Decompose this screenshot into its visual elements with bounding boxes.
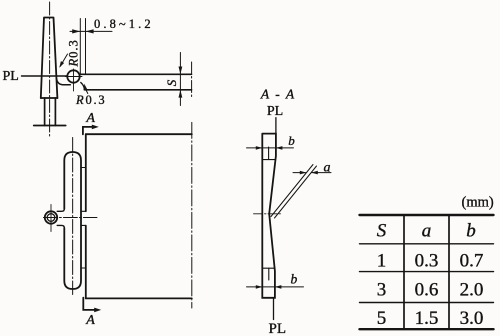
sprue bottom line — [34, 125, 66, 127]
column line 1 — [403, 215, 405, 329]
section line A bottom — [83, 298, 94, 310]
svg-text:a: a — [324, 160, 331, 175]
svg-text:A - A: A - A — [260, 87, 296, 102]
waist centerline — [254, 213, 281, 215]
svg-text:a: a — [422, 221, 432, 242]
svg-text:(mm): (mm) — [462, 194, 494, 210]
svg-text:0.7: 0.7 — [460, 250, 484, 271]
a dimension arrows — [293, 172, 331, 174]
svg-text:PL: PL — [267, 104, 283, 119]
svg-text:5: 5 — [377, 308, 387, 329]
gate tick bottom — [81, 267, 86, 269]
svg-text:b: b — [466, 221, 476, 242]
svg-text:2.0: 2.0 — [460, 280, 484, 301]
cavity rectangle left edge — [85, 134, 87, 298]
plate tick bottom — [262, 267, 275, 269]
sprue crosshair vertical — [50, 205, 52, 232]
sprue circle outer — [45, 211, 57, 223]
section line A top — [83, 127, 92, 134]
sprue crosshair horizontal — [43, 217, 97, 219]
plate tick top — [262, 159, 275, 161]
svg-text:3.0: 3.0 — [460, 308, 484, 329]
svg-text:PL: PL — [269, 321, 287, 336]
PL line — [22, 75, 68, 77]
S dimension line — [179, 53, 181, 106]
runner circle — [67, 70, 79, 82]
svg-text:S: S — [377, 221, 387, 242]
runner connection lines — [57, 209, 64, 228]
svg-text:0.6: 0.6 — [415, 280, 439, 301]
plate bottom line — [84, 89, 191, 91]
row rule 2 — [360, 302, 494, 304]
symmetry centerline — [191, 122, 193, 308]
runner crossing ticks — [81, 211, 86, 225]
extension lines gate width — [80, 19, 85, 74]
table text — [377, 221, 484, 330]
sprue gate curve under circle — [56, 79, 70, 85]
svg-text:b: b — [291, 271, 298, 286]
sprue body (tapered) — [41, 18, 58, 99]
column line 2 — [448, 215, 450, 329]
row rule 1 — [360, 271, 494, 273]
sprue step — [41, 97, 58, 99]
plate top line — [80, 73, 192, 75]
svg-text:R0.3: R0.3 — [67, 39, 81, 67]
svg-text:A: A — [85, 111, 95, 126]
svg-text:0.3: 0.3 — [415, 250, 439, 271]
inner line top — [268, 147, 270, 160]
table bottom rule — [360, 328, 494, 330]
gate lower fillet edge — [81, 83, 85, 90]
leader for lower R0.3 — [85, 88, 88, 93]
gate tick top — [81, 167, 86, 169]
svg-text:3: 3 — [377, 280, 387, 301]
capsule centerline — [72, 138, 74, 295]
PL stub top — [275, 118, 277, 134]
oblique extension lines for a — [271, 165, 317, 219]
table top rule — [360, 214, 494, 216]
PL stub bottom — [273, 298, 275, 320]
sprue circle inner — [47, 214, 55, 222]
svg-text:0.8~1.2: 0.8~1.2 — [94, 17, 154, 31]
circle crosshair — [65, 69, 82, 91]
leader for upper R0.3 — [60, 54, 67, 66]
header rule — [360, 243, 494, 245]
svg-text:R0.3: R0.3 — [75, 93, 106, 107]
svg-text:b: b — [288, 133, 295, 148]
cavity rectangle bottom edge — [86, 297, 192, 299]
gate plate outline — [262, 134, 276, 298]
runner capsule — [64, 152, 81, 289]
b dimension top — [247, 147, 294, 149]
inner line bottom — [268, 268, 270, 280]
svg-text:A: A — [85, 313, 95, 328]
svg-text:1: 1 — [377, 250, 387, 271]
dimension line 0.8~1.2 — [70, 30, 112, 32]
short centerline right — [191, 62, 193, 99]
svg-text:S: S — [164, 79, 179, 86]
cavity rectangle top edge — [86, 133, 192, 135]
svg-text:1.5: 1.5 — [415, 308, 439, 329]
centerline of sprue — [49, 2, 51, 136]
sprue narrow section — [45, 98, 56, 126]
b dimension bottom — [247, 286, 304, 288]
svg-text:PL: PL — [3, 69, 19, 84]
